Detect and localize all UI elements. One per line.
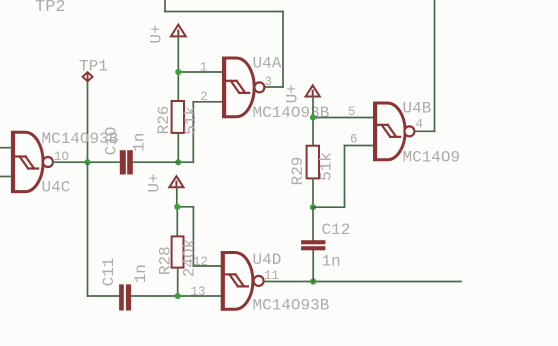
junction R28/C11/pin13 bbox=[175, 293, 181, 299]
svg-text:C11: C11 bbox=[100, 258, 118, 287]
wire U4D pin 12 bbox=[193, 265, 220, 267]
wire net-out top vertical stub bbox=[164, 0, 166, 12]
svg-text:1: 1 bbox=[200, 61, 208, 75]
wire U4C input pin bottom bbox=[0, 176, 11, 178]
svg-text:R26: R26 bbox=[155, 106, 173, 135]
svg-text:TP2: TP2 bbox=[35, 0, 66, 17]
svg-text:U4A: U4A bbox=[253, 55, 282, 73]
supply U+ P2 triangle bbox=[169, 176, 183, 187]
svg-text:12: 12 bbox=[193, 255, 208, 269]
svg-text:U+: U+ bbox=[284, 84, 302, 103]
svg-text:MC14O93B: MC14O93B bbox=[253, 297, 330, 315]
svg-text:6: 6 bbox=[350, 133, 358, 147]
wire C10 right plate to node bbox=[133, 161, 179, 163]
wire U4D output long horizontal bbox=[264, 281, 461, 283]
resistor R26 bbox=[172, 101, 184, 133]
wire net-out right vertical down to U4A output bbox=[282, 12, 284, 88]
svg-text:1n: 1n bbox=[132, 264, 150, 283]
wire U4A output pin 3 bbox=[264, 86, 283, 88]
nand gate U4A bbox=[222, 57, 264, 119]
svg-text:1n: 1n bbox=[131, 133, 149, 152]
svg-text:U4C: U4C bbox=[42, 179, 71, 197]
wire U4B pin 6 bbox=[345, 145, 374, 147]
junction TP1/U4C output bbox=[84, 159, 90, 165]
wire R28 bottom to node bbox=[177, 268, 179, 296]
junction supply P3/pin5/R29 bbox=[310, 114, 316, 120]
wire net-out top horizontal bbox=[165, 11, 283, 13]
wire pin2 jog vertical bbox=[192, 102, 194, 162]
svg-text:51k: 51k bbox=[318, 152, 336, 181]
wire U4B output pin 4 bbox=[414, 130, 434, 132]
nand gate U4B bbox=[373, 102, 414, 162]
wire C11 left vertical bbox=[87, 162, 89, 296]
resistor R28 bbox=[172, 236, 184, 267]
junction node R26/C10/pin2 bbox=[175, 159, 181, 165]
wire pin6 jog vertical bbox=[344, 146, 346, 208]
svg-text:U4B: U4B bbox=[403, 100, 432, 118]
svg-text:MC14O93B: MC14O93B bbox=[253, 104, 330, 122]
svg-text:13: 13 bbox=[191, 285, 206, 299]
svg-text:U+: U+ bbox=[148, 24, 166, 43]
junction C12 bottom on output wire bbox=[310, 278, 316, 284]
resistor R29 bbox=[307, 146, 319, 179]
wire C11 right plate to U4D pin 13 bbox=[131, 295, 221, 297]
nand gate U4D bbox=[221, 251, 264, 311]
wire node to pin12 jog horizontal bbox=[177, 206, 193, 208]
wire node down to C12 top bbox=[312, 207, 314, 240]
wire node down to R29 top bbox=[312, 118, 314, 146]
svg-text:5: 5 bbox=[348, 105, 356, 119]
test point TP1 diamond bbox=[83, 72, 93, 81]
wire node to pin6 jog horizontal bbox=[313, 206, 345, 208]
capacitor C10 bbox=[120, 150, 133, 174]
wire TP1 down to U4C output net bbox=[87, 82, 89, 162]
wire pin12 jog vertical bbox=[192, 207, 194, 266]
svg-text:C1O: C1O bbox=[103, 127, 121, 156]
svg-text:1n: 1n bbox=[322, 253, 341, 271]
svg-text:U+: U+ bbox=[146, 173, 164, 192]
svg-text:R28: R28 bbox=[157, 246, 175, 275]
wire pin2 jog to node bbox=[178, 161, 193, 163]
svg-text:51k: 51k bbox=[182, 106, 200, 135]
wire node to U4A pin 1 bbox=[178, 71, 222, 73]
capacitor C11 bbox=[119, 284, 131, 310]
wire node down to R26 top bbox=[177, 72, 179, 102]
wire U4B output up to top edge bbox=[434, 0, 436, 131]
capacitor C12 bbox=[301, 240, 325, 250]
junction node V+/R26/pin1 bbox=[175, 69, 181, 75]
wire C12 bottom to output wire bbox=[312, 250, 314, 281]
wire to C11 left plate bbox=[88, 295, 120, 297]
junction supply P2/R28 bbox=[174, 204, 180, 210]
wire R26 bottom to node bbox=[177, 133, 179, 162]
wire supply P2 down to node bbox=[176, 187, 178, 206]
svg-text:MC14O9: MC14O9 bbox=[403, 149, 461, 167]
svg-text:U4D: U4D bbox=[253, 251, 282, 269]
svg-text:C12: C12 bbox=[322, 221, 351, 239]
wire R29 bottom to node bbox=[312, 178, 314, 207]
wire U4C input pin top bbox=[0, 147, 11, 149]
wire U4A pin 2 horizontal bbox=[193, 101, 222, 103]
wire node to R28 top bbox=[176, 207, 178, 237]
svg-text:3: 3 bbox=[265, 75, 273, 89]
wire node to U4B pin 5 bbox=[313, 117, 373, 119]
wire supply P3 down to node bbox=[312, 97, 314, 118]
wire U4C output to C10 bbox=[53, 161, 120, 163]
svg-text:R29: R29 bbox=[289, 157, 307, 186]
wire supply P1 to node bbox=[177, 37, 179, 73]
svg-text:4: 4 bbox=[416, 118, 424, 132]
nand gate U4C bbox=[11, 131, 53, 193]
junction R29/C12/pin6 bbox=[310, 204, 316, 210]
svg-text:TP1: TP1 bbox=[79, 58, 108, 76]
supply U+ P3 triangle bbox=[306, 85, 320, 96]
supply U+ P1 triangle bbox=[171, 25, 186, 37]
